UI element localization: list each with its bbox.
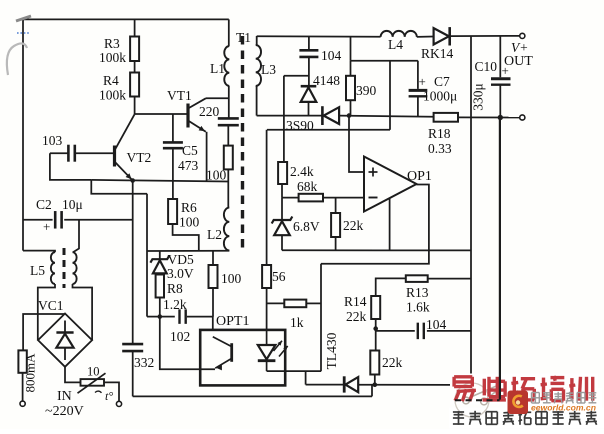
svg-text:1.6k: 1.6k (406, 300, 430, 315)
svg-text:100: 100 (206, 168, 227, 183)
wire W1 L2-bottom (147, 250, 229, 252)
wire left border (22, 19, 24, 250)
resistor R6 (168, 199, 199, 230)
svg-text:3.0V: 3.0V (167, 266, 194, 281)
capacitor C2 (36, 197, 83, 234)
wire secondary top (257, 35, 381, 38)
zener 6.8V (272, 217, 320, 236)
svg-text:L4: L4 (388, 37, 403, 52)
capacitor 102 (170, 309, 190, 344)
wire 1k right lead (306, 302, 321, 304)
wire 68k to opamp (323, 197, 363, 199)
wire feedback vertical (146, 194, 148, 317)
node R8 bottom (158, 314, 163, 319)
svg-text:VC1: VC1 (38, 298, 64, 313)
wire 103 feedback loop (50, 153, 91, 180)
inductor L5 right coil (73, 252, 77, 284)
wire 2.4k bottom (281, 184, 283, 198)
resistor 390 (346, 76, 377, 100)
svg-text:R8: R8 (167, 281, 183, 296)
wire node left (147, 316, 160, 318)
wire L5 right top (73, 220, 79, 252)
wire +input (349, 116, 363, 172)
wire VD5 to R8 (159, 274, 161, 275)
wire C10 bottom (499, 85, 501, 118)
svg-text:L5: L5 (30, 263, 45, 278)
wire emitter rail (91, 180, 227, 182)
wire bottom ground rail (133, 395, 372, 397)
svg-text:10: 10 (87, 365, 100, 379)
svg-text:220: 220 (199, 104, 220, 119)
wire bridge top to fuse (23, 314, 65, 351)
svg-text:+: + (43, 219, 50, 234)
terminal AC left (20, 401, 25, 406)
svg-text:473: 473 (178, 158, 199, 173)
svg-text:100: 100 (221, 271, 242, 286)
resistor 100 bias (209, 265, 242, 288)
svg-text:TL430: TL430 (324, 332, 339, 369)
svg-text:V+: V+ (511, 40, 528, 55)
svg-text:330μ: 330μ (471, 83, 486, 111)
svg-text:R18: R18 (428, 126, 451, 141)
resistor R8 (156, 275, 187, 313)
terminal AC right (116, 401, 121, 406)
svg-text:22k: 22k (346, 309, 367, 324)
svg-text:OP1: OP1 (407, 169, 432, 184)
wire B (267, 129, 390, 131)
svg-text:+: + (502, 63, 509, 78)
svg-text:1.2k: 1.2k (163, 297, 187, 312)
wire 56 to LED (266, 288, 268, 330)
zener VD5 (150, 251, 194, 281)
wire OP1 output (321, 185, 429, 264)
svg-text:T1: T1 (236, 30, 251, 45)
wire 104t feed (308, 36, 310, 49)
node VT2 emitter (130, 178, 135, 183)
op-amp OP1 (364, 157, 432, 212)
wire OP1 V- pin (389, 198, 391, 250)
wire R14 top (376, 278, 406, 296)
svg-text:104: 104 (321, 48, 342, 63)
svg-text:L1: L1 (210, 61, 225, 76)
wire R3-R4 (134, 61, 136, 73)
diode 4148 (301, 73, 341, 102)
wire 22ku top (335, 198, 337, 213)
diode RK14 (421, 27, 454, 61)
wire VT1 emitter drop (206, 132, 208, 182)
capacitor C5 (163, 142, 199, 173)
node R14 bottom (373, 326, 378, 331)
artifact pen mark (7, 16, 31, 75)
wire feedback drop (91, 180, 147, 194)
wire RK14 to V+ terminal (451, 35, 520, 37)
wire ground rail riser (371, 385, 373, 396)
label IN ~220V (45, 389, 84, 419)
capacitor 104 top (299, 48, 341, 63)
wire 100 to L2 (227, 169, 229, 207)
svg-text:L2: L2 (207, 227, 222, 242)
wire R4 to VT1 base node (134, 97, 136, 115)
wire top to L1 (228, 19, 230, 46)
wire VT1 base (135, 113, 188, 115)
svg-text:332: 332 (134, 355, 154, 370)
wire y60 rail (351, 60, 418, 62)
wire 104b right (427, 330, 471, 332)
wire top rail (23, 18, 229, 20)
resistor R13 (406, 275, 430, 314)
watermark eeworld (449, 374, 604, 429)
svg-text:100: 100 (179, 215, 200, 230)
resistor 68k (297, 179, 323, 201)
capacitor C7 (409, 74, 458, 104)
wire L1 to 220cap (228, 86, 230, 118)
wire 4148 to 2.4k corner (284, 75, 309, 77)
svg-text:0.33: 0.33 (428, 141, 452, 156)
core L5 (63, 248, 66, 288)
wire 4148 to wireA (308, 102, 310, 116)
wire A mid (339, 116, 434, 117)
terminal OUT minus (520, 115, 525, 120)
wire top drop (350, 36, 352, 60)
svg-text:102: 102 (170, 329, 190, 344)
wire node to 22k (375, 329, 377, 351)
wire R8 to node (159, 298, 161, 317)
terminal V+ OUT (504, 33, 533, 69)
wire 104t to 4148 (308, 57, 310, 86)
svg-text:+: + (419, 74, 426, 89)
svg-text:6.8V: 6.8V (293, 219, 320, 234)
wire to zener (281, 198, 283, 220)
wire V+ sense (470, 36, 472, 374)
resistor R18 (428, 113, 458, 156)
inductor L4 (381, 31, 417, 52)
capacitor C10 (471, 59, 511, 111)
svg-text:VT2: VT2 (127, 150, 152, 165)
resistor 100 snubber (206, 146, 233, 183)
fuse 800mA (18, 350, 37, 392)
wire VT1 collector (206, 97, 229, 99)
svg-text:100k: 100k (99, 88, 126, 103)
wire C2 rail left (23, 219, 53, 221)
wire B to 56 (266, 130, 268, 265)
inductor L3 (256, 36, 277, 116)
wire emitter node drop (132, 181, 134, 344)
inductor L2 (207, 208, 229, 251)
wire 103 right to VT2 base (75, 152, 113, 154)
wire C10 top (499, 36, 501, 77)
opto phototransistor (213, 337, 232, 371)
resistor R14 (344, 294, 380, 324)
svg-text:C7: C7 (434, 74, 450, 89)
wire 103 left (50, 152, 68, 154)
node TL430 anode (373, 382, 378, 387)
wire R18 right (458, 116, 520, 118)
thermistor 10 (78, 365, 114, 404)
svg-text:OPT1: OPT1 (216, 314, 249, 329)
wire 1k riser (320, 264, 322, 372)
node 3S90 (347, 113, 352, 118)
capacitor 332 (122, 344, 154, 370)
svg-text:R3: R3 (104, 36, 120, 51)
svg-text:L3: L3 (261, 62, 276, 77)
wire A left (257, 115, 322, 117)
node output minus (498, 115, 503, 120)
resistor 2.4k (278, 162, 314, 184)
wire C2 rail right (64, 219, 133, 221)
wire 100 to OPT1 (212, 288, 214, 317)
wire R6 bottom jog (173, 224, 199, 251)
inductor L1 (210, 46, 229, 86)
svg-text:100k: 100k (99, 50, 126, 65)
opto LED (258, 330, 288, 371)
svg-text:VT1: VT1 (167, 88, 192, 103)
svg-text:C10: C10 (475, 59, 498, 74)
resistor 56 (262, 265, 286, 288)
wire 22k bottom (374, 375, 376, 385)
wire L4 to RK14 (417, 36, 434, 38)
resistor 1k (284, 300, 306, 330)
wire 102 to OPT1 collector (187, 317, 213, 330)
wire R3 feed (134, 19, 136, 36)
wire zener to rail (281, 235, 283, 251)
wire C7 bottom (417, 96, 419, 116)
svg-text:103: 103 (42, 133, 63, 148)
wire L5 left top (23, 251, 55, 253)
svg-text:eeworld.com.cn: eeworld.com.cn (531, 403, 596, 413)
svg-text:C2: C2 (36, 197, 52, 212)
wire L5 left bottom to bridge (38, 284, 55, 340)
wire TL430 left (306, 384, 343, 386)
wire 1k left lead (267, 302, 285, 304)
wire 332 to ground rail (132, 351, 134, 396)
svg-text:R13: R13 (406, 285, 429, 300)
wire C5-R6 (172, 148, 174, 199)
resistor R3 (99, 36, 139, 65)
svg-text:RK14: RK14 (421, 46, 454, 61)
wire node down to OPT1 emitter (160, 317, 215, 370)
wire zener rail (282, 249, 471, 251)
wire bridge bottom (65, 367, 81, 383)
svg-text:C5: C5 (182, 143, 198, 158)
svg-text:R6: R6 (181, 200, 197, 215)
capacitor 103 (42, 133, 75, 162)
svg-text:R14: R14 (344, 294, 367, 309)
svg-text:~220V: ~220V (45, 404, 84, 419)
svg-text:10μ: 10μ (62, 197, 83, 212)
bridge rectifier VC1 (38, 298, 92, 367)
svg-text:t°: t° (105, 389, 113, 403)
resistor 22k upper (331, 213, 363, 237)
capacitor 220 (199, 104, 239, 125)
svg-text:22k: 22k (382, 355, 403, 370)
wire cathode branch down (305, 371, 307, 385)
wire C7 top (417, 61, 419, 89)
svg-text:390: 390 (356, 83, 377, 98)
wire 4148k vertical (283, 76, 285, 162)
svg-text:VD5: VD5 (168, 252, 194, 267)
svg-text:104: 104 (426, 317, 447, 332)
svg-text:R4: R4 (103, 73, 119, 88)
wire LED cathode out (267, 370, 321, 372)
wire L5 right bottom to bridge (73, 284, 93, 340)
wire 22ku bottom (335, 237, 337, 250)
svg-text:IN: IN (57, 389, 72, 404)
inductor L5 left coil (30, 252, 55, 284)
shunt reg TL430 (324, 332, 358, 392)
core T1 (236, 30, 251, 252)
svg-text:22k: 22k (343, 218, 364, 233)
wire node to 104b (376, 330, 415, 332)
svg-text:68k: 68k (297, 179, 318, 194)
diode 3S90 (286, 106, 339, 133)
wire 220cap to 100 (227, 125, 229, 145)
wire node to 102 (160, 316, 175, 318)
capacitor 104 bottom (418, 317, 447, 339)
wire thermistor to AC terminal (104, 382, 119, 401)
wire C5 top (172, 114, 174, 142)
wire 390 top (350, 61, 352, 76)
wire 390 bottom (350, 100, 352, 115)
svg-text:4148: 4148 (313, 73, 340, 88)
wire R14 bottom (375, 319, 377, 329)
wire V2 drop (389, 61, 391, 130)
svg-text:1k: 1k (290, 315, 304, 330)
wire fuse to AC terminal (22, 373, 24, 401)
wire -input (282, 197, 299, 199)
svg-text:800mA: 800mA (23, 353, 38, 393)
transistor VT1 (167, 88, 206, 132)
resistor R4 (99, 73, 139, 103)
resistor 22k lower (370, 351, 402, 375)
optocoupler OPT1 box (200, 314, 285, 385)
svg-text:2.4k: 2.4k (290, 164, 314, 179)
wire TL430 right (358, 384, 450, 386)
wire L2node to 100 (212, 251, 214, 265)
transistor VT2 (115, 114, 152, 179)
svg-text:1000μ: 1000μ (423, 89, 457, 104)
svg-text:56: 56 (272, 269, 286, 284)
svg-text:3S90: 3S90 (286, 118, 314, 133)
wire return sense (499, 118, 501, 400)
wire R13 right (428, 278, 471, 280)
